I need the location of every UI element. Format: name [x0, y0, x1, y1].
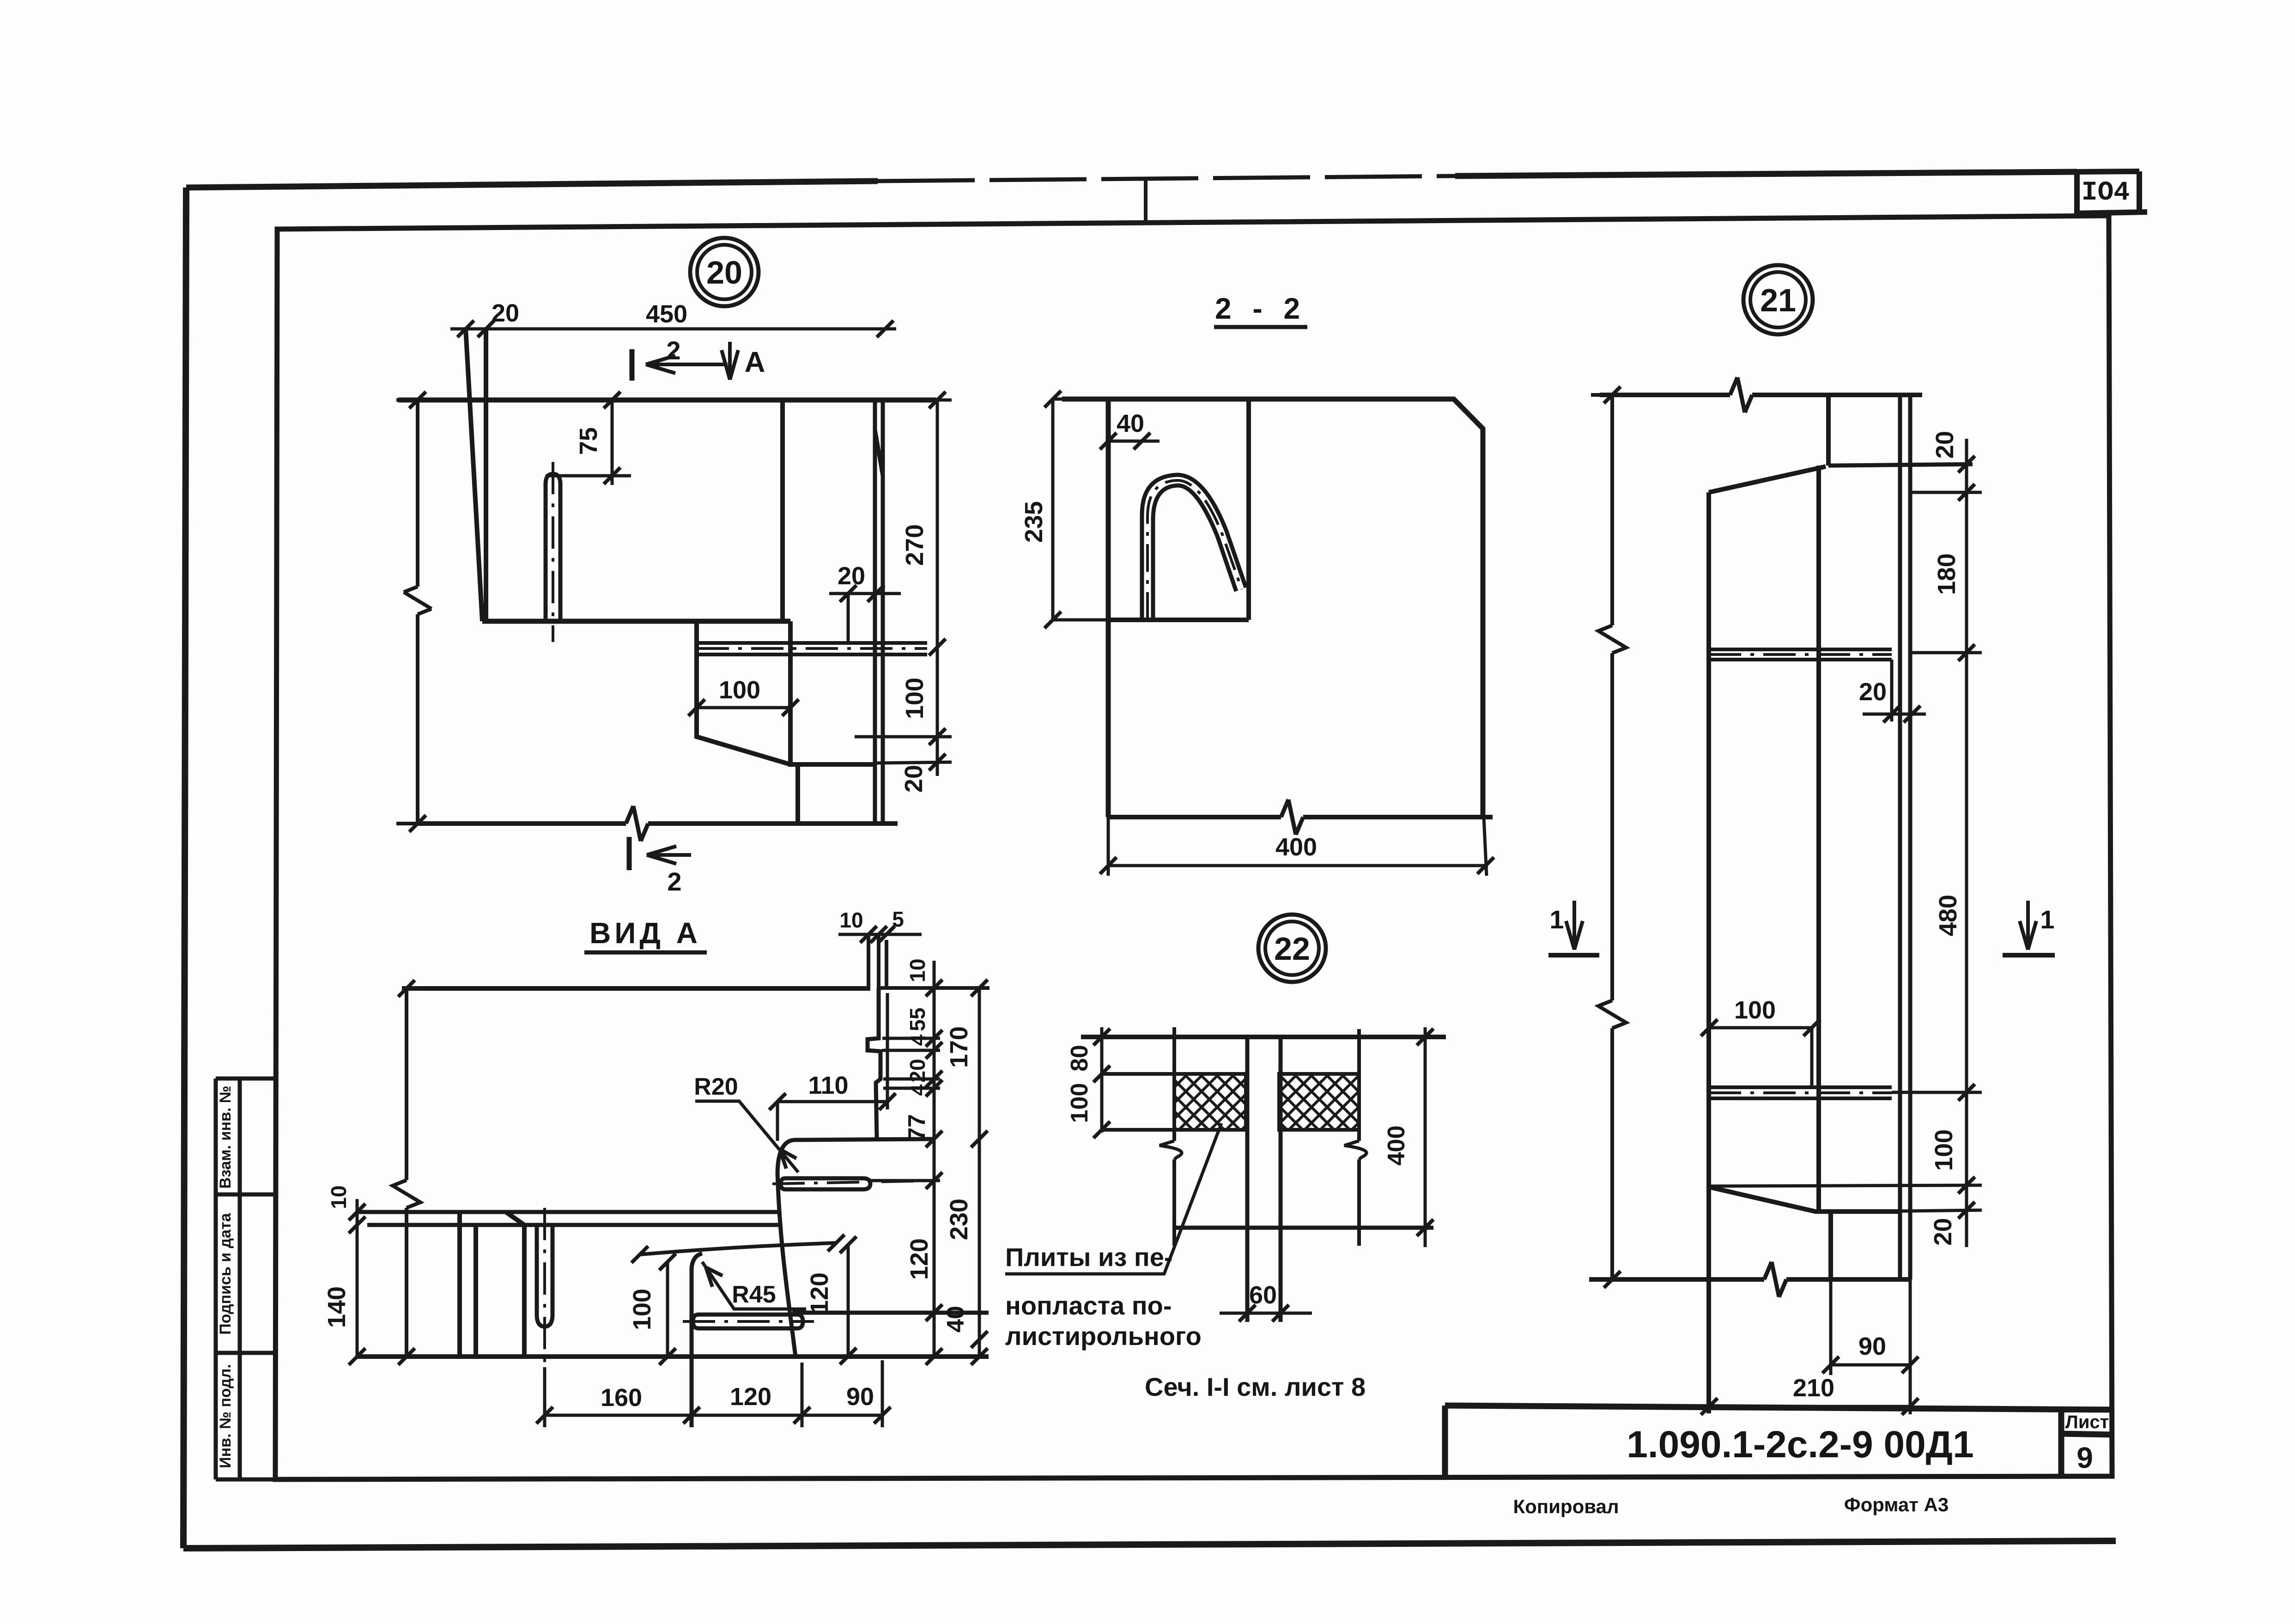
page number box 104: [2074, 171, 2147, 213]
fold mark tick top center: [1144, 179, 1147, 220]
svg-text:230: 230: [945, 1199, 973, 1240]
svg-text:55: 55: [905, 1007, 929, 1031]
svg-text:100: 100: [1930, 1129, 1958, 1171]
detail 20 top edge: [398, 398, 936, 403]
svg-text:140: 140: [323, 1286, 351, 1328]
detail 22 left broken extension: [1160, 1027, 1182, 1246]
svg-text:1: 1: [2040, 905, 2054, 934]
svg-text:20: 20: [1929, 1218, 1957, 1246]
svg-text:1: 1: [1549, 905, 1564, 934]
svg-text:10: 10: [905, 958, 929, 982]
svg-text:Сеч. I-I см. лист 8: Сеч. I-I см. лист 8: [1145, 1372, 1366, 1401]
svg-text:270: 270: [901, 524, 929, 566]
svg-text:ВИД А: ВИД А: [589, 916, 701, 950]
view A mid far edge line: [356, 1210, 779, 1214]
detail 20 top dimension line 20/450: [450, 299, 896, 337]
svg-text:100: 100: [719, 676, 760, 704]
svg-text:2: 2: [667, 867, 681, 896]
svg-text:20: 20: [492, 299, 519, 327]
dimension 235: [1020, 391, 1118, 628]
svg-text:Лист: Лист: [2065, 1412, 2109, 1432]
svg-text:60: 60: [1249, 1281, 1277, 1309]
svg-text:2 - 2: 2 - 2: [1215, 292, 1306, 325]
svg-text:235: 235: [1020, 501, 1048, 543]
sheet outer border bottom edge: [183, 1541, 2116, 1548]
svg-text:4: 4: [907, 1034, 929, 1046]
view A left overall dimension line with break: [393, 980, 420, 1365]
sheet outer border left edge: [183, 188, 186, 1548]
svg-text:100: 100: [1066, 1083, 1093, 1123]
view A anchor plate lower: [683, 1315, 814, 1328]
svg-text:Взам. инв. №: Взам. инв. №: [217, 1085, 234, 1188]
svg-text:R45: R45: [732, 1281, 776, 1308]
detail 21 bottom edge with break: [1589, 1262, 1910, 1297]
view A console inner vertical: [690, 1268, 694, 1427]
svg-text:120: 120: [905, 1238, 933, 1280]
detail 21 top edge with break: [1600, 377, 1922, 412]
dimension 140 left: [323, 1238, 416, 1365]
svg-text:400: 400: [1275, 833, 1317, 861]
view A vertical lifting loop: [537, 1208, 552, 1367]
leader to foam plates: [1005, 1123, 1221, 1274]
detail 22 lower edge line: [1174, 1226, 1433, 1230]
foam plate right (crosshatched): [1279, 1074, 1359, 1130]
dimension 20 horizontal at band end: [1859, 660, 1926, 722]
svg-text:1.090.1-2с.2-9 00Д1: 1.090.1-2с.2-9 00Д1: [1627, 1424, 1973, 1466]
svg-text:4: 4: [907, 1084, 929, 1096]
dimension 120 inner: [806, 1236, 856, 1364]
svg-text:80: 80: [1066, 1045, 1093, 1072]
svg-text:180: 180: [1933, 553, 1961, 595]
view A groove step line: [794, 1139, 934, 1140]
section title 2-2: [1214, 292, 1307, 327]
svg-text:90: 90: [1858, 1333, 1886, 1360]
detail 20 left slanted edge: [466, 329, 482, 621]
detail 22 slab underside lines: [1102, 1074, 1174, 1130]
detail 21 neck bottom: [1828, 1212, 1833, 1279]
svg-text:120: 120: [730, 1383, 771, 1411]
detail 21 slab band 2 with axis: [1709, 1087, 1892, 1098]
dimension 75 with extension: [546, 392, 631, 485]
dimension 90: [1822, 1279, 1919, 1414]
detail 21 inner face: [1816, 466, 1821, 1210]
svg-text:480: 480: [1934, 895, 1962, 936]
detail 21 wall leaf double line: [1900, 395, 1910, 1279]
view arrow А: [722, 342, 765, 380]
svg-text:листирольного: листирольного: [1005, 1321, 1202, 1351]
section marker 1 right: [2003, 901, 2055, 955]
svg-text:100: 100: [628, 1289, 656, 1330]
svg-text:20: 20: [838, 562, 865, 590]
view A top edge: [402, 986, 870, 991]
svg-text:нопласта по-: нопласта по-: [1005, 1291, 1172, 1320]
detail 21 left overall dimension line with breaks: [1591, 387, 1633, 1288]
section marker 2 bottom: [629, 837, 691, 896]
section 2-2 recess: [1108, 399, 1249, 620]
detail 20 console outline: [697, 621, 875, 764]
dimension 100 top: [1701, 996, 1820, 1088]
detail 21 slab band 1 with axis: [1709, 649, 1892, 660]
dimension 400: [1100, 817, 1494, 876]
detail 20 body right vertical: [780, 400, 785, 620]
R20 fillet and curved edge: [777, 1140, 795, 1357]
section marker 1 left: [1548, 901, 1599, 955]
detail 20 outer wall leaf double line: [875, 400, 883, 824]
section marker 2 top: [632, 336, 728, 381]
view A console top edge with R45: [631, 1235, 844, 1268]
dimension 20 at wall leaf: [829, 562, 901, 643]
detail 20 neck below console: [795, 764, 800, 824]
section 2-2 bottom edge with break: [1108, 800, 1493, 835]
view A anchor plate upper: [772, 1178, 940, 1189]
svg-text:20: 20: [905, 1059, 929, 1082]
svg-text:21: 21: [1760, 282, 1796, 318]
svg-text:20: 20: [900, 765, 928, 793]
label R45 with leader: [702, 1262, 806, 1309]
svg-text:10: 10: [327, 1185, 351, 1209]
svg-text:210: 210: [1793, 1374, 1834, 1402]
view A right edge grooved profile: [868, 934, 886, 1139]
detail 21 top slant: [1709, 467, 1826, 492]
dimension 40: [1100, 410, 1160, 449]
svg-text:450: 450: [646, 300, 687, 328]
view A right outer dimension chain: [942, 980, 988, 1365]
svg-text:Копировал: Копировал: [1513, 1496, 1619, 1517]
view A bottom ledge line: [792, 1311, 989, 1315]
svg-text:20: 20: [1931, 431, 1959, 459]
svg-text:20: 20: [1859, 678, 1887, 706]
svg-text:IO4: IO4: [2082, 178, 2130, 208]
svg-text:Подпись и дата: Подпись и дата: [217, 1212, 234, 1335]
detail 22 rib edges: [1247, 1037, 1281, 1322]
svg-text:100: 100: [901, 678, 929, 719]
detail 21 bottom slant and ledge: [1709, 1187, 1900, 1212]
view title ВИД А: [584, 916, 707, 952]
detail 20 lifting loop: [546, 462, 560, 642]
dimension 210: [1701, 1374, 1919, 1415]
foam plate left (crosshatched): [1174, 1074, 1246, 1130]
svg-text:2: 2: [666, 336, 680, 365]
svg-text:А: А: [745, 346, 765, 378]
detail 22 left dimension chain 80/100: [1066, 1027, 1110, 1138]
svg-text:20: 20: [706, 255, 742, 291]
svg-text:5: 5: [892, 907, 904, 931]
detail 21 right dimension chain 20/180/480/100/20: [1709, 431, 1982, 1247]
svg-text:75: 75: [575, 427, 602, 455]
svg-text:9: 9: [2076, 1441, 2093, 1474]
dimension 400 right: [1383, 1027, 1433, 1247]
section 2-2 outline: [1062, 399, 1483, 817]
detail 21 top ledge: [1828, 464, 1973, 466]
detail 20 bottom edge with break: [418, 806, 898, 841]
svg-text:40: 40: [1117, 410, 1144, 437]
dimension 10 left: [327, 1185, 365, 1238]
view A bottom dimension line 160/120/90: [536, 1360, 891, 1427]
detail 22 right broken extension: [1344, 1029, 1366, 1246]
inner drawing frame: [275, 216, 2112, 1479]
view A console block edges: [460, 1212, 524, 1357]
node circle 20: [690, 238, 759, 306]
detail 20 left overall dimension line with break: [396, 392, 439, 832]
svg-text:10: 10: [839, 908, 863, 932]
dimension 100 at console: [688, 676, 799, 716]
svg-text:100: 100: [1734, 996, 1776, 1024]
note text Плиты из пенопласта полистирольного: [1005, 1242, 1202, 1351]
svg-text:160: 160: [601, 1384, 642, 1412]
svg-text:22: 22: [1274, 931, 1310, 967]
svg-text:Инв. № подл.: Инв. № подл.: [217, 1364, 234, 1468]
view A bottom edge: [357, 1354, 989, 1359]
dimension 110: [769, 993, 896, 1141]
dimension 100 mid: [628, 1254, 676, 1365]
top mini dimension 10/5: [838, 907, 922, 943]
title block outline: [1445, 1406, 2112, 1478]
detail 20 left inner vertical edge: [484, 329, 488, 621]
detail 21 left face: [1706, 492, 1711, 1413]
detail 21 neck top: [1826, 395, 1831, 466]
node circle 21: [1743, 265, 1813, 334]
svg-text:40: 40: [942, 1306, 969, 1333]
svg-text:120: 120: [806, 1273, 833, 1314]
svg-text:R20: R20: [694, 1073, 738, 1100]
svg-text:90: 90: [846, 1383, 874, 1411]
svg-text:77: 77: [904, 1114, 930, 1141]
detail 20 slab band with axis: [697, 643, 927, 654]
section 2-2 anchor loop: [1142, 475, 1246, 620]
view A mid near edge line: [367, 1223, 781, 1227]
sheet outer border top edge: [186, 181, 878, 188]
detail 22 top edge: [1081, 1035, 1446, 1039]
svg-text:Формат А3: Формат А3: [1844, 1494, 1949, 1515]
node circle 22: [1258, 915, 1326, 982]
svg-text:Плиты из пе-: Плиты из пе-: [1005, 1242, 1173, 1272]
view A right inner dimension chain: [870, 958, 942, 1365]
svg-text:110: 110: [808, 1072, 848, 1099]
detail 20 right dimension chain 270/100/20: [855, 392, 952, 793]
svg-text:170: 170: [945, 1026, 973, 1068]
label R20 with leader: [694, 1073, 798, 1172]
left stamp column box: [216, 1079, 276, 1479]
dimension 60: [1220, 1281, 1312, 1321]
svg-text:400: 400: [1383, 1126, 1410, 1166]
detail 20 body bottom edge: [482, 619, 790, 624]
